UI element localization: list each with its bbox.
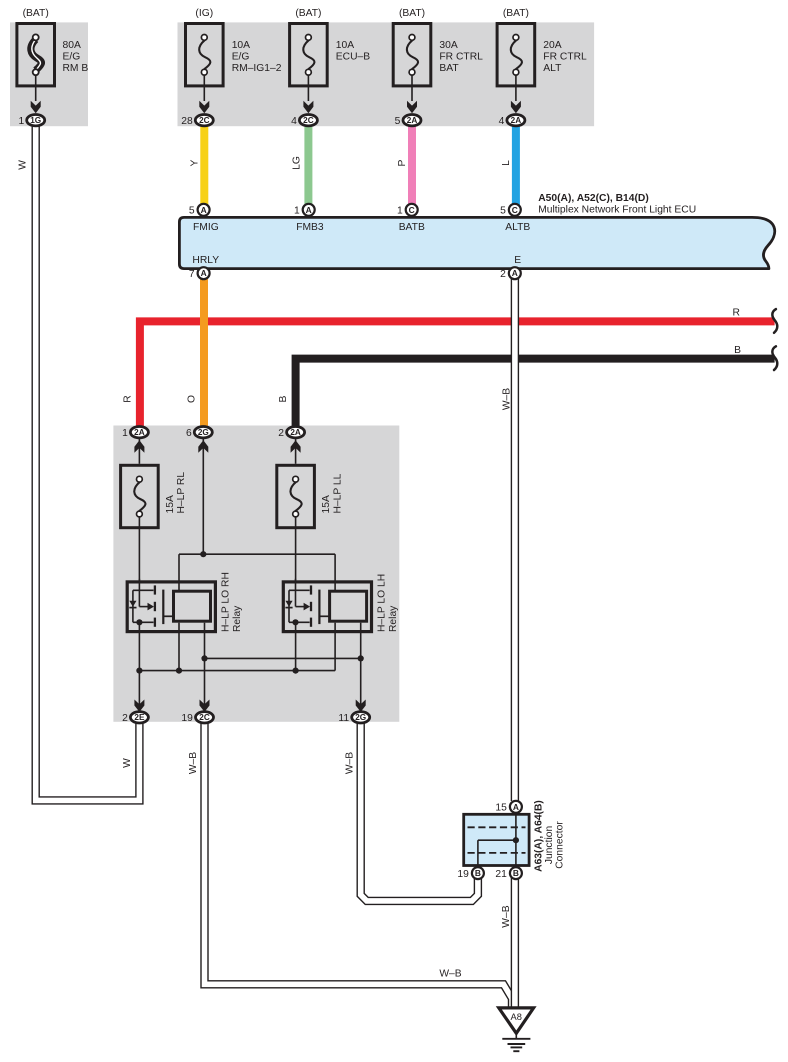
ECU pin 1 (C) BATB xyxy=(406,204,418,216)
svg-text:W: W xyxy=(122,758,133,768)
junction node xyxy=(513,837,519,843)
svg-text:FR CTRL: FR CTRL xyxy=(543,52,587,63)
svg-text:H–LP LL: H–LP LL xyxy=(332,473,343,513)
fuse 15A H-LP LL xyxy=(277,465,315,527)
svg-text:19: 19 xyxy=(457,869,469,880)
wire: relay RH control outputs down xyxy=(178,623,180,671)
svg-text:H–LP RL: H–LP RL xyxy=(176,472,187,514)
junction pin 19 (B) xyxy=(472,867,484,879)
svg-text:ALTB: ALTB xyxy=(505,222,530,233)
wire: relay LH source down xyxy=(295,622,297,670)
svg-text:A: A xyxy=(306,205,312,215)
wire: lower row 1 (to 2C pin19) xyxy=(205,657,361,659)
connector 2A pin 1 xyxy=(134,440,144,452)
svg-text:C: C xyxy=(409,205,415,215)
wire W-B : E pin2 of ECU down to junction connector A15 xyxy=(511,278,519,801)
svg-text:2: 2 xyxy=(122,713,128,724)
svg-text:A: A xyxy=(201,205,207,215)
svg-text:B: B xyxy=(734,345,741,356)
svg-text:E/G: E/G xyxy=(232,52,250,63)
svg-text:1: 1 xyxy=(397,206,403,217)
svg-text:R: R xyxy=(122,395,133,402)
wire: 2A pin2 to fuse H-LP LL xyxy=(295,437,297,463)
connector 2A pin 2 xyxy=(291,440,301,452)
svg-text:2: 2 xyxy=(278,428,284,439)
svg-text:5: 5 xyxy=(500,206,506,217)
svg-text:2C: 2C xyxy=(303,116,314,125)
svg-text:20A: 20A xyxy=(543,40,561,51)
wire R (red) from H-LP RL fuse to right break xyxy=(140,321,775,426)
fusible link 80A E/G RM B xyxy=(17,24,55,86)
svg-text:W–B: W–B xyxy=(501,905,512,927)
connector 2C pin 4 xyxy=(299,115,317,126)
svg-text:W–B: W–B xyxy=(188,752,199,774)
svg-text:A: A xyxy=(201,268,207,278)
svg-text:RM–IG1–2: RM–IG1–2 xyxy=(232,63,282,74)
svg-text:6: 6 xyxy=(186,428,192,439)
wire: relay LH control outputs down xyxy=(334,623,336,671)
relay H-LP LO RH xyxy=(127,582,215,632)
connector 2C pin 28 xyxy=(195,115,213,126)
svg-text:Y: Y xyxy=(189,159,200,166)
svg-text:1G: 1G xyxy=(30,116,41,125)
headlight relay block (middle) xyxy=(113,426,399,722)
svg-text:A63(A), A64(B): A63(A), A64(B) xyxy=(534,800,545,872)
svg-text:B: B xyxy=(278,395,289,402)
wire: relay RH source to 2E pin2 xyxy=(138,622,140,712)
wire W-B : 2G pin11 to junction connector B19 xyxy=(361,721,478,901)
svg-text:15: 15 xyxy=(495,803,507,814)
svg-text:A50(A), A52(C), B14(D): A50(A), A52(C), B14(D) xyxy=(538,193,649,204)
wire W-B : junction connector B21 to ground A8 xyxy=(511,874,519,1007)
svg-text:1: 1 xyxy=(122,428,128,439)
svg-text:W–B: W–B xyxy=(344,752,355,774)
node on gate row at 2G pin6 xyxy=(200,551,206,557)
relay H-LP LO LH xyxy=(283,582,371,632)
fuse 30A FR CTRL BAT xyxy=(393,24,431,86)
wire LG (light green) fuse ECU-B to FMB3 xyxy=(304,125,312,205)
svg-text:A: A xyxy=(513,802,519,812)
svg-text:B: B xyxy=(475,868,481,878)
ECU pin 5 (C) ALTB xyxy=(509,204,521,216)
wire O (orange) HRLY to relay block xyxy=(200,278,208,427)
svg-text:(BAT): (BAT) xyxy=(295,8,321,19)
svg-text:11: 11 xyxy=(338,713,349,724)
svg-text:1: 1 xyxy=(294,206,300,217)
fuse 15A H-LP RL xyxy=(121,465,159,527)
svg-text:Connector: Connector xyxy=(555,821,566,869)
svg-text:2G: 2G xyxy=(355,713,366,722)
svg-text:2G: 2G xyxy=(198,428,209,437)
svg-text:W: W xyxy=(18,160,29,170)
arrow into 1G xyxy=(31,101,41,113)
svg-text:(BAT): (BAT) xyxy=(503,8,529,19)
wire L (blue) fuse FR CTRL ALT to ALTB xyxy=(512,125,520,205)
svg-text:W–B: W–B xyxy=(439,969,461,980)
connector 1G pin 1 xyxy=(27,115,45,126)
svg-text:FMB3: FMB3 xyxy=(296,222,324,233)
svg-text:W–B: W–B xyxy=(501,388,512,410)
svg-text:E: E xyxy=(514,255,521,266)
svg-text:2A: 2A xyxy=(407,116,418,125)
svg-text:Multiplex Network Front Light: Multiplex Network Front Light ECU xyxy=(538,205,696,216)
svg-text:HRLY: HRLY xyxy=(192,255,219,266)
wire: 2A pin1 to fuse H-LP RL xyxy=(138,437,140,463)
svg-text:L: L xyxy=(501,160,512,166)
junction pin 21 (B) xyxy=(510,867,522,879)
svg-text:2A: 2A xyxy=(290,428,301,437)
svg-text:10A: 10A xyxy=(232,40,250,51)
ECU pin 2 (A) E xyxy=(509,267,521,279)
svg-text:5: 5 xyxy=(395,116,401,127)
svg-text:BAT: BAT xyxy=(439,63,459,74)
svg-text:1: 1 xyxy=(18,116,24,127)
connector 2C pin 19 xyxy=(200,700,210,712)
ECU pin 7 (A) HRLY xyxy=(198,267,210,279)
ECU pin 1 (A) FMB3 xyxy=(303,204,315,216)
svg-text:R: R xyxy=(732,307,739,318)
svg-text:2C: 2C xyxy=(199,713,210,722)
svg-text:4: 4 xyxy=(291,116,297,127)
wire: fuse LL to relay LH drain xyxy=(295,514,297,580)
svg-text:B: B xyxy=(513,868,519,878)
svg-text:28: 28 xyxy=(181,116,193,127)
svg-text:RM B: RM B xyxy=(63,63,89,74)
wire Y (yellow) fuse RM-IG1-2 to FMIG xyxy=(200,125,208,205)
svg-text:LG: LG xyxy=(291,156,302,170)
wire W-B : 2C pin19 to ground xyxy=(205,721,513,1007)
svg-text:C: C xyxy=(512,205,518,215)
svg-text:Junction: Junction xyxy=(544,826,555,865)
svg-text:10A: 10A xyxy=(336,40,354,51)
svg-text:2A: 2A xyxy=(134,428,145,437)
svg-text:2A: 2A xyxy=(511,116,522,125)
svg-text:Relay: Relay xyxy=(388,605,399,632)
wire: 2G pin6 down to gate distribution node xyxy=(202,437,204,554)
svg-text:2E: 2E xyxy=(134,713,145,722)
ground A8 xyxy=(499,1008,534,1033)
svg-text:ECU–B: ECU–B xyxy=(336,52,370,63)
svg-text:H–LP LO RH: H–LP LO RH xyxy=(220,572,231,632)
fusible-link block (left, battery) xyxy=(10,22,88,126)
svg-text:30A: 30A xyxy=(439,40,457,51)
svg-text:P: P xyxy=(397,159,408,166)
wire B (black) from H-LP LL fuse to right break xyxy=(296,359,775,427)
fuse 10A ECU-B xyxy=(290,24,328,86)
fuse/relay block (top band) xyxy=(178,22,595,126)
svg-text:A8: A8 xyxy=(511,1012,522,1022)
connector 2E pin 2 xyxy=(134,700,144,712)
Multiplex Network Front Light ECU box xyxy=(179,217,774,268)
wire P (pink) fuse FR CTRL BAT to BATB xyxy=(408,125,416,205)
svg-text:BATB: BATB xyxy=(399,222,425,233)
svg-text:A: A xyxy=(512,268,518,278)
svg-text:21: 21 xyxy=(495,869,507,880)
wire: fuse RL to relay RH drain xyxy=(138,514,140,580)
svg-text:FMIG: FMIG xyxy=(193,222,219,233)
connector 2A pin 5 xyxy=(403,115,421,126)
connector 2A pin 4 xyxy=(507,115,525,126)
svg-text:E/G: E/G xyxy=(63,52,81,63)
fuse 20A FR CTRL ALT xyxy=(497,24,535,86)
svg-text:(BAT): (BAT) xyxy=(23,8,49,19)
fuse 10A E/G RM-IG1-2 xyxy=(186,24,224,86)
wire: gate distribution row xyxy=(179,553,335,555)
svg-text:(BAT): (BAT) xyxy=(399,8,425,19)
svg-text:(IG): (IG) xyxy=(195,8,213,19)
svg-text:15A: 15A xyxy=(321,495,332,513)
wire: lower row 2 (to 2E pin2) xyxy=(139,670,335,672)
connector 2G pin 11 xyxy=(356,700,366,712)
wire W : 1G pin1 to 2E pin2 (U-shape) xyxy=(36,124,140,800)
svg-text:19: 19 xyxy=(181,713,193,724)
svg-text:15A: 15A xyxy=(165,495,176,513)
svg-text:7: 7 xyxy=(189,269,195,280)
svg-text:Relay: Relay xyxy=(232,605,243,632)
junction pin 15 (A) xyxy=(510,801,522,813)
junction connector A63(A),A64(B) xyxy=(464,814,529,865)
svg-text:2: 2 xyxy=(500,269,506,280)
ECU pin 5 (A) FMIG xyxy=(198,204,210,216)
connector 2G pin 6 xyxy=(198,440,208,452)
svg-text:FR CTRL: FR CTRL xyxy=(439,52,483,63)
svg-text:5: 5 xyxy=(189,206,195,217)
svg-text:80A: 80A xyxy=(63,40,81,51)
svg-text:ALT: ALT xyxy=(543,63,562,74)
svg-text:2C: 2C xyxy=(199,116,210,125)
svg-text:H–LP LO LH: H–LP LO LH xyxy=(377,574,388,632)
junction internal wire xyxy=(515,814,517,865)
svg-text:4: 4 xyxy=(499,116,505,127)
svg-text:O: O xyxy=(186,395,197,403)
